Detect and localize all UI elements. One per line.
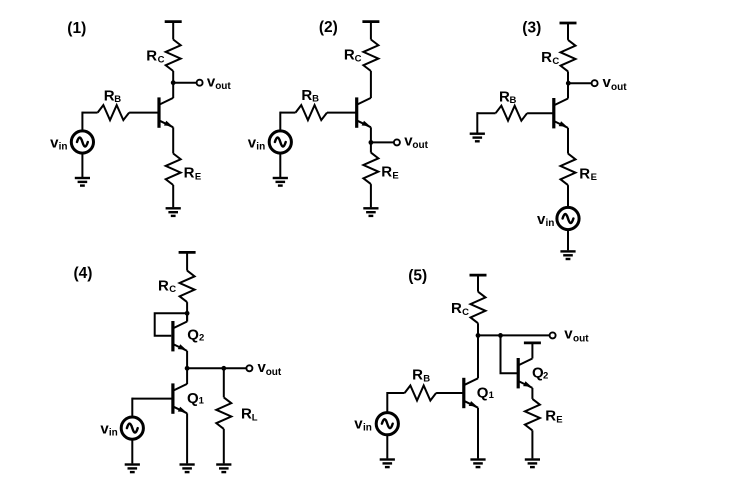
node emitter dot [369, 140, 374, 145]
VCC supply bar [560, 22, 577, 24]
svg-text:in: in [546, 218, 555, 229]
transistor Q1 [173, 383, 187, 413]
resistor RB [98, 105, 130, 120]
wire diode connection loop [155, 313, 187, 336]
wire RE to vin source [567, 185, 569, 207]
wire Q2 emitter to node [186, 351, 188, 368]
wire vin to RB [82, 112, 97, 114]
svg-text:R: R [301, 87, 312, 104]
wire node to RL [223, 368, 225, 397]
wire node to vout terminal [371, 141, 394, 143]
wire Q2 emitter to RE [531, 388, 533, 399]
node collector dot [566, 81, 571, 86]
svg-text:out: out [266, 367, 282, 378]
svg-text:B: B [312, 94, 319, 105]
wire node to vout terminal [224, 367, 246, 369]
svg-text:(3): (3) [522, 19, 541, 36]
svg-text:E: E [195, 171, 201, 182]
svg-text:C: C [355, 53, 362, 64]
terminal vout [550, 332, 556, 338]
terminal vout [246, 365, 252, 371]
wire Q2 collector to VCC [531, 343, 533, 359]
wire RB to base [129, 112, 159, 114]
VCC supply bar [179, 251, 196, 253]
ground RE [525, 460, 540, 468]
svg-text:L: L [252, 412, 258, 423]
node emitter dot [185, 366, 190, 371]
svg-text:R: R [541, 49, 552, 66]
source vin [71, 131, 93, 153]
wire node to vout terminal [501, 334, 550, 336]
wire source to ground [81, 154, 83, 177]
svg-text:C: C [169, 284, 176, 295]
svg-text:R: R [184, 165, 195, 182]
svg-text:R: R [344, 47, 355, 64]
VCC supply bar Q2 [524, 342, 541, 344]
svg-text:v: v [354, 416, 363, 433]
svg-text:out: out [215, 81, 231, 92]
node collector Q2 dot [185, 311, 190, 316]
ground vin [560, 251, 575, 259]
ground Q1 [470, 460, 485, 468]
wire emitter to RE [567, 128, 569, 154]
svg-text:R: R [579, 165, 590, 182]
source vin [376, 413, 398, 435]
wire node to RL node [187, 367, 224, 369]
transistor Q1 [554, 98, 568, 128]
ground RE [166, 208, 181, 216]
svg-text:in: in [59, 142, 68, 153]
svg-text:in: in [256, 142, 265, 153]
resistor RC [561, 40, 576, 72]
svg-text:C: C [462, 307, 469, 318]
wire RE to ground [531, 430, 533, 458]
terminal vout [197, 80, 203, 86]
wire RB to base [327, 112, 357, 114]
node RL dot [221, 366, 226, 371]
resistor RL [216, 397, 231, 429]
resistor RB [296, 105, 328, 120]
resistor RC [166, 40, 181, 72]
wire ground to RB [477, 112, 495, 114]
wire down to ground [476, 112, 478, 133]
wire emitter to RE [370, 127, 372, 152]
svg-text:R: R [104, 87, 115, 104]
svg-text:Q: Q [187, 326, 199, 343]
VCC supply bar [165, 21, 182, 23]
wire node to Q1 collector [186, 368, 188, 384]
wire VCC to RC [370, 22, 372, 40]
source vin [121, 417, 143, 439]
wire RB to base [527, 112, 554, 114]
wire RC to collector node [567, 71, 569, 98]
svg-text:C: C [552, 56, 559, 67]
ground RB [470, 134, 485, 142]
wire RC to collector node [172, 71, 174, 98]
transistor Q1 [159, 97, 173, 127]
ground vin [273, 178, 288, 186]
wire RE to ground [172, 185, 174, 207]
source vin [557, 207, 579, 229]
resistor RE [561, 154, 576, 186]
VCC supply bar [362, 21, 379, 23]
wire source to ground [567, 230, 569, 250]
svg-text:(1): (1) [67, 20, 86, 37]
wire node to Q2 base node [478, 334, 501, 336]
wire vin to RB [280, 112, 295, 114]
svg-text:B: B [114, 94, 121, 105]
terminal vout [394, 139, 400, 145]
svg-text:(4): (4) [74, 265, 93, 282]
wire node to Q2 collector [186, 313, 188, 321]
resistor RE [166, 154, 181, 186]
svg-text:1: 1 [489, 390, 495, 401]
ground vin [125, 465, 140, 473]
resistor RB [405, 386, 437, 401]
resistor RC [180, 271, 195, 303]
svg-text:out: out [573, 333, 589, 344]
svg-text:out: out [611, 82, 627, 93]
wire node to vout terminal [568, 82, 591, 84]
wire VCC to RC [567, 23, 569, 40]
VCC supply bar [470, 274, 487, 276]
wire collector Q1 to node [477, 335, 479, 378]
resistor RC [471, 292, 486, 324]
ground Q1 [180, 465, 195, 473]
wire Q1 emitter to ground [186, 413, 188, 463]
wire Q1 emitter to ground [477, 408, 479, 459]
svg-text:E: E [556, 414, 562, 425]
transistor Q2 [518, 358, 532, 388]
svg-text:R: R [241, 405, 252, 422]
wire emitter to RE [172, 127, 174, 153]
wire down to vin source [279, 112, 281, 131]
ground RE [363, 208, 378, 216]
svg-text:(5): (5) [408, 267, 427, 284]
svg-text:in: in [363, 423, 372, 434]
svg-text:R: R [158, 277, 169, 294]
wire down to vin source [386, 392, 388, 412]
svg-text:2: 2 [199, 332, 204, 343]
wire RB to base [436, 392, 464, 394]
terminal vout [592, 80, 598, 86]
wire down to vin source [131, 398, 133, 417]
ground RL [216, 465, 231, 473]
svg-text:out: out [412, 140, 428, 151]
wire down to vin source [81, 112, 83, 131]
wire VCC to RC [186, 252, 188, 270]
wire VCC to RC [477, 275, 479, 292]
ground vin [75, 178, 90, 186]
wire RC to node [186, 302, 188, 321]
transistor Q2 [173, 321, 187, 351]
svg-text:2: 2 [543, 371, 548, 382]
wire source to ground [279, 154, 281, 177]
wire source to ground [131, 440, 133, 464]
node collector dot [476, 333, 481, 338]
svg-text:R: R [381, 164, 392, 181]
svg-text:E: E [591, 172, 597, 183]
svg-text:C: C [158, 54, 165, 65]
wire RL to ground [223, 429, 225, 464]
ground vin [380, 460, 395, 468]
wire RC to collector [370, 71, 372, 98]
wire node to vout terminal [173, 82, 196, 84]
wire VCC to RC [172, 22, 174, 40]
svg-text:v: v [564, 326, 573, 343]
svg-text:Q: Q [187, 390, 199, 407]
node collector dot [171, 80, 176, 85]
svg-text:R: R [451, 300, 462, 317]
source vin [269, 131, 291, 153]
resistor RC [363, 40, 378, 72]
svg-text:B: B [510, 95, 517, 106]
node Q2 base dot [498, 333, 503, 338]
transistor Q1 [464, 378, 478, 408]
svg-text:E: E [392, 170, 398, 181]
svg-text:R: R [412, 367, 423, 384]
svg-text:(2): (2) [319, 19, 338, 36]
resistor RE [525, 399, 540, 431]
wire RC to node [477, 323, 479, 335]
resistor RB [496, 106, 527, 121]
svg-text:1: 1 [199, 395, 205, 406]
wire node to Q2 base [501, 335, 519, 373]
transistor Q1 [357, 97, 371, 127]
svg-text:R: R [545, 407, 556, 424]
svg-text:R: R [499, 88, 510, 105]
resistor RE [363, 153, 378, 185]
wire vin to RB [387, 392, 404, 394]
svg-text:in: in [109, 428, 118, 439]
wire source to ground [386, 435, 388, 458]
svg-text:Q: Q [477, 384, 489, 401]
svg-text:R: R [146, 47, 157, 64]
svg-text:B: B [423, 373, 430, 384]
wire RE to ground [370, 184, 372, 207]
wire base Q1 [132, 398, 173, 400]
